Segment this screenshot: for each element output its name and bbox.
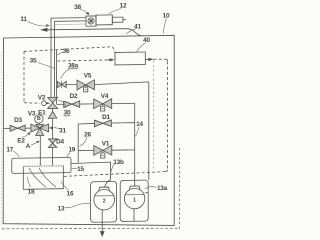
svg-text:18: 18 bbox=[28, 189, 35, 196]
svg-text:41: 41 bbox=[134, 24, 141, 31]
svg-text:12: 12 bbox=[120, 3, 127, 10]
svg-text:11: 11 bbox=[20, 16, 27, 23]
svg-text:35: 35 bbox=[30, 58, 37, 65]
svg-text:14: 14 bbox=[136, 121, 143, 128]
svg-text:V5: V5 bbox=[84, 73, 92, 80]
svg-text:26: 26 bbox=[84, 132, 91, 139]
svg-text:30: 30 bbox=[64, 110, 71, 117]
svg-text:1: 1 bbox=[133, 198, 136, 204]
svg-text:31: 31 bbox=[59, 128, 66, 135]
svg-text:D1: D1 bbox=[102, 114, 110, 121]
svg-text:38: 38 bbox=[74, 4, 81, 11]
svg-text:V3: V3 bbox=[28, 111, 36, 118]
svg-text:V4: V4 bbox=[101, 93, 109, 100]
svg-text:D4: D4 bbox=[56, 139, 64, 146]
svg-text:D2: D2 bbox=[70, 93, 78, 100]
svg-text:13: 13 bbox=[58, 206, 65, 213]
svg-text:13b: 13b bbox=[113, 159, 124, 166]
svg-text:16: 16 bbox=[67, 191, 74, 198]
svg-text:38a: 38a bbox=[68, 63, 79, 70]
svg-text:A: A bbox=[26, 143, 31, 150]
svg-text:36: 36 bbox=[63, 48, 70, 55]
svg-text:15: 15 bbox=[77, 166, 84, 173]
svg-text:13a: 13a bbox=[157, 185, 168, 192]
svg-text:E2: E2 bbox=[17, 138, 25, 145]
svg-text:B: B bbox=[37, 116, 41, 122]
svg-text:19: 19 bbox=[68, 147, 75, 154]
svg-text:17: 17 bbox=[6, 147, 13, 154]
svg-text:V2: V2 bbox=[38, 95, 46, 102]
svg-text:D3: D3 bbox=[14, 117, 22, 124]
svg-text:2: 2 bbox=[103, 198, 106, 204]
svg-text:40: 40 bbox=[143, 37, 150, 44]
svg-text:V1: V1 bbox=[102, 141, 110, 148]
svg-text:10: 10 bbox=[163, 13, 170, 20]
